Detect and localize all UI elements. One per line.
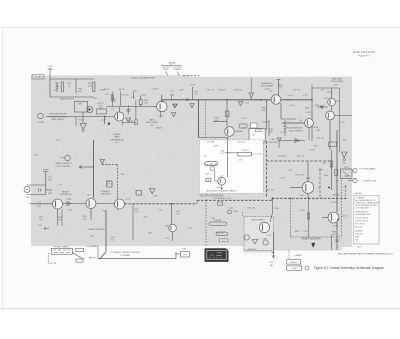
transistor Q6 bar [306,120,308,125]
svg-text:+15V: +15V [152,195,158,197]
pot R46 rounded box [205,162,218,166]
node dots rail B [226,99,228,101]
svg-text:Q2: Q2 [151,125,155,127]
svg-text:R44 BLANKING: R44 BLANKING [287,127,303,130]
diode CR6 [295,139,300,143]
diode circle CR7 [263,240,268,245]
white integrator box [199,140,263,194]
svg-text:C39: C39 [238,160,243,162]
svg-text:+4.7V: +4.7V [266,235,272,237]
svg-text:S1 SWEEP: S1 SWEEP [86,246,98,248]
ground [252,240,258,244]
component notch [226,248,229,251]
transistor Q9 bar [55,201,57,207]
wire bias network bottom rail [50,96,94,98]
wire jog [198,137,227,139]
svg-text:+15V: +15V [299,210,305,212]
svg-text:C46: C46 [288,170,293,172]
transistor Q8 bar [219,179,221,184]
connector J1 [24,187,30,193]
wire sweep length [98,252,176,258]
svg-text:FOLLOWER: FOLLOWER [261,85,274,87]
svg-text:1K: 1K [56,86,59,88]
output terminal E2 [353,178,357,182]
svg-text:+15V: +15V [190,85,196,87]
transistor Q12 [169,224,177,232]
power -15V arrow down [272,255,275,258]
svg-text:15K: 15K [262,110,266,112]
svg-text:C13: C13 [169,91,174,93]
svg-text:INDICATES WIRING PATH OF SWEEP: INDICATES WIRING PATH OF SWEEP GENERATOR… [338,253,394,256]
svg-text:C24: C24 [126,110,131,112]
transistor Q11 bar [117,201,119,207]
transistor Q1 bar [117,114,119,120]
E3 label box [220,239,228,242]
svg-text:4.7K: 4.7K [131,97,136,99]
svg-text:DRIVER Q8: DRIVER Q8 [60,194,73,196]
svg-text:SWEEP LENGTH: SWEEP LENGTH [87,229,105,231]
svg-text:R46 SWP CAL: R46 SWP CAL [204,163,218,166]
resistor box R20 [97,109,107,114]
svg-text:+8.9V: +8.9V [305,178,311,180]
svg-text:C38 10: C38 10 [241,150,249,152]
terminal E ring [228,210,232,214]
capacitor C40 [225,152,231,154]
svg-text:.01: .01 [194,94,198,96]
svg-text:10K: 10K [135,211,139,213]
wire Q2 collector [161,95,163,103]
svg-text:DISCONNECT: DISCONNECT [251,219,266,221]
svg-text:+15V: +15V [47,66,53,68]
svg-text:R51: R51 [343,140,348,142]
transistor Q7 [302,182,314,194]
svg-text:+15V: +15V [262,143,268,145]
dashed disconnect enclosure [244,217,274,251]
svg-text:1K: 1K [207,180,210,182]
svg-text:C28: C28 [245,103,250,105]
wafer marks [54,250,71,253]
wire Q13 emitter down [272,232,274,258]
box R25 [136,191,142,196]
svg-text:C47: C47 [342,162,347,164]
wire long vertical left [93,140,95,198]
wire reset row [30,203,53,205]
node circle [343,158,345,160]
dashed vertical right [345,185,347,199]
svg-text:+9.4V: +9.4V [305,112,311,114]
wire rail B main [162,99,312,101]
wire [250,98,252,100]
filler labels [35,90,348,235]
transistor Q5B [326,111,335,120]
svg-text:.022: .022 [37,205,42,207]
svg-text:Q4: Q4 [269,91,273,93]
svg-text:TP1: TP1 [183,255,188,257]
svg-text:+GATE: +GATE [294,254,302,257]
component inner marks [210,253,223,258]
capacitor C21 plate [43,170,49,172]
svg-text:R57: R57 [148,233,153,235]
resistor R17 [61,82,63,92]
wire [312,87,340,89]
wire [123,122,136,124]
resistor R30 [225,111,229,117]
diode CR5 [277,138,281,142]
wire +15V Q5 [331,89,333,99]
adjust circle R19a [38,113,44,119]
dashed vertical col [341,180,343,237]
wire [45,171,47,194]
thermistor marks [343,171,351,177]
svg-text:Figure 8-7: Figure 8-7 [358,54,370,58]
svg-text:-15V: -15V [165,238,170,240]
TP2 box [218,202,223,205]
svg-text:DISCONNECT: DISCONNECT [289,130,304,132]
svg-text:DESIGNATIONS: DESIGNATIONS [355,213,371,216]
wire [104,117,106,125]
wire [75,79,77,84]
svg-text:Q7: Q7 [318,187,322,189]
wire Q7 base [290,187,302,189]
svg-text:1K: 1K [279,87,282,89]
output terminal E1 [353,169,357,173]
wire [336,223,338,251]
svg-text:DELAY LINE AMPLIFIER: DELAY LINE AMPLIFIER [131,77,156,80]
svg-text:100-250: 100-250 [355,233,363,235]
wire gate pulse [79,166,94,168]
ref box A [287,260,301,264]
svg-text:+15V: +15V [119,174,125,176]
svg-text:15K: 15K [112,101,116,103]
transistor Q12 bar [170,226,172,231]
node blob [108,123,110,125]
svg-text:+8.6V: +8.6V [313,127,319,129]
svg-text:RT1 TP1-2: RT1 TP1-2 [355,223,366,225]
wire Q3 feed [226,100,228,127]
adjust circle [210,166,214,170]
ground [126,118,131,122]
wire dashed vertical [117,165,119,211]
schematic shaded area [31,75,352,253]
connector triangle [100,160,105,164]
svg-text:RT1: RT1 [344,167,349,169]
wire holdoff feed [308,198,310,237]
svg-text:TO HORIZ AMPL: TO HORIZ AMPL [359,167,377,170]
wire [331,106,333,111]
svg-text:.01: .01 [67,86,71,88]
svg-text:180: 180 [48,179,52,181]
transistor Q9 [53,199,63,209]
wire Q1 emitter [121,121,124,126]
connector triangle [249,93,254,98]
switch wafer box [51,248,72,254]
svg-text:EXT: EXT [27,197,32,199]
diode CR8 solid [312,243,316,248]
svg-text:R30: R30 [102,211,107,213]
resistor R18 [75,84,77,94]
wire right column top [311,85,313,141]
switch box S1 [76,259,83,262]
contact box [256,129,262,132]
varistor circle [244,235,249,240]
wire [96,203,114,205]
svg-text:C31: C31 [286,100,291,102]
svg-text:E1-3 S1: E1-3 S1 [355,226,363,228]
svg-text:+8.1V: +8.1V [299,195,305,197]
transistor Q4 bar [273,97,275,103]
svg-text:+1.2V: +1.2V [125,199,131,201]
svg-text:C26: C26 [68,210,73,212]
node junction [273,252,275,254]
svg-text:+0.8V: +0.8V [101,120,107,122]
transistor Q13 [259,222,269,232]
wire right column long [336,130,338,212]
paper speckle [35,77,350,245]
wire connector feed [250,78,252,93]
wire dashed drop [205,100,207,138]
svg-text:R24: R24 [48,193,53,195]
boundary tag dashes [183,75,200,77]
delay line bracket [209,222,227,226]
svg-text:CR7: CR7 [262,239,267,241]
svg-text:C9 .1: C9 .1 [106,94,112,96]
transistor Q5B bar [327,113,329,118]
svg-text:RESET: RESET [62,191,70,193]
transistor Q5A bar [329,100,331,105]
svg-text:CRT CIRCUIT: CRT CIRCUIT [57,166,72,168]
svg-text:R23: R23 [78,120,83,122]
svg-text:+2.4V: +2.4V [339,122,345,124]
transistor Q10 [86,199,96,209]
wire in-box vertical [227,140,229,177]
relay box K1 [251,123,258,128]
svg-text:+0.6V: +0.6V [302,95,308,97]
resistor R31 [139,100,142,105]
svg-text:-15V: -15V [38,225,43,227]
svg-text:+1.2V: +1.2V [279,178,285,180]
transistor Q10 bar [88,200,90,206]
wire emitter out [335,115,353,117]
svg-text:XA5: XA5 [355,235,360,238]
dashed vertical [242,212,244,216]
diode CR4 [320,106,324,109]
resistor R45 [330,161,333,167]
power bracket [161,63,182,65]
svg-text:Q5: Q5 [334,84,338,86]
svg-text:+ GATE TO A4: + GATE TO A4 [362,179,377,182]
resistor R23 [75,117,77,127]
svg-text:+0.7V: +0.7V [264,89,270,91]
ground [80,124,87,132]
wire [281,118,296,120]
wire blanking column [268,120,270,136]
svg-text:+10V: +10V [335,100,341,102]
ground [171,113,176,117]
svg-text:C33: C33 [320,90,325,92]
svg-text:C37: C37 [188,228,193,230]
wire [266,100,268,130]
svg-text:+15V: +15V [179,90,185,92]
svg-text:R43: R43 [313,145,318,147]
svg-text:R26: R26 [142,95,147,97]
svg-text:AMPLIFIER: AMPLIFIER [146,121,158,124]
svg-text:15K: 15K [58,219,62,221]
svg-text:C20: C20 [53,90,58,92]
svg-text:A5Q2: A5Q2 [156,127,162,130]
svg-text:+10.7V: +10.7V [287,95,295,97]
svg-text:R50: R50 [233,211,238,213]
svg-text:P/O A5: P/O A5 [37,121,45,124]
svg-text:CR2: CR2 [78,104,83,106]
transistor Q14 [328,212,339,223]
svg-text:FRONT PANEL: FRONT PANEL [54,245,70,248]
wire [317,106,328,108]
svg-text:R44: R44 [214,146,219,148]
wire sweep bus dashed seg3 [272,197,348,199]
svg-text:Figure 8-7. Sweep Generator S: Figure 8-7. Sweep Generator Schematic Di… [314,266,384,270]
capacitor C20 [56,82,59,92]
svg-text:+0.2V: +0.2V [280,132,286,134]
wire +15V to Q4 [278,79,280,95]
svg-text:A5 MILLER INTEGRATOR ASSY: A5 MILLER INTEGRATOR ASSY [207,189,237,192]
svg-text:K1: K1 [253,135,256,137]
svg-text:C35 .02: C35 .02 [316,138,324,140]
capacitor C38 box [238,152,252,156]
svg-text:Q10: Q10 [342,215,347,217]
diode CR2 [87,107,93,113]
wire dashed corner [102,164,118,166]
ground [173,104,177,108]
svg-text:+6V: +6V [335,180,339,182]
svg-text:CR5: CR5 [270,139,275,141]
wire +15V drop [192,87,194,100]
svg-text:TRIGGER FROM: TRIGGER FROM [49,114,66,116]
svg-text:C44: C44 [322,163,327,165]
ground [173,104,177,108]
resistor R47 box [206,178,211,181]
dashed holdoff enclosure left [266,141,268,198]
black component inner frame [207,251,226,260]
dashed bracket [47,253,49,264]
dashed vertical bottom [288,250,290,260]
svg-text:+3.9V: +3.9V [333,226,339,228]
power +15V pair right arrow [178,72,180,76]
wire [278,142,280,149]
svg-text:(B): (B) [35,155,38,157]
svg-text:R34: R34 [170,95,175,97]
svg-text:BLANKING: BLANKING [261,82,272,85]
svg-text:R51 2K: R51 2K [267,190,275,192]
connector center pin [26,189,27,190]
wire rail A [106,106,157,108]
svg-text:R24 1K: R24 1K [122,95,130,97]
svg-text:GATE PULSE TO: GATE PULSE TO [55,162,72,165]
svg-text:W1: W1 [355,239,359,241]
box R25 upper [107,181,113,187]
wire [227,138,229,154]
svg-text:+0.17V: +0.17V [330,202,338,204]
node dots bus [171,203,173,205]
resistor R22 vertical [112,92,114,107]
notes box text [355,193,380,242]
bracket 2 [216,232,228,236]
svg-text:BIAS ADJUST: BIAS ADJUST [60,98,75,101]
wire [339,88,341,152]
svg-text:Q1: Q1 [111,109,115,111]
svg-text:-15V: -15V [216,187,221,189]
svg-text:10K: 10K [107,183,111,185]
svg-text:C29: C29 [90,236,95,238]
diode CR2 arrow [89,108,92,111]
TP1 box [181,252,190,258]
wire [352,170,353,172]
resistor R49 [307,213,309,219]
svg-text:A5 ASSY: A5 ASSY [248,248,258,251]
svg-text:2.7K: 2.7K [303,231,308,233]
svg-text:P/O A5: P/O A5 [35,76,43,79]
svg-text:22K: 22K [83,218,87,220]
wire sweep bus dashed seg2 [197,199,272,201]
svg-text:.01: .01 [111,239,115,241]
svg-text:DELAY: DELAY [214,219,222,222]
svg-text:8-9: 8-9 [357,246,361,248]
wire Q4 base [255,99,271,101]
svg-text:.02: .02 [220,153,224,155]
wire Q8 down arrow [221,185,224,189]
wire [270,199,273,223]
wire [135,100,137,120]
svg-text:C36 20: C36 20 [326,91,334,93]
wire TP1 arrow [175,253,180,255]
wire Q14 base stub [322,217,328,219]
svg-text:C41: C41 [203,156,208,158]
node junction [328,187,330,189]
svg-text:+10.5V: +10.5V [152,89,160,91]
svg-text:R49: R49 [319,170,324,172]
svg-text:R58 560: R58 560 [216,233,225,235]
wire [61,210,63,227]
connector triangle [150,189,156,194]
wire Q12 feed [171,204,173,225]
svg-text:UNREG: UNREG [174,69,182,71]
svg-text:+0.6V: +0.6V [158,116,164,118]
thermistor RT1 box [341,169,353,179]
svg-text:R53 4.7K: R53 4.7K [296,175,305,177]
svg-text:E3: E3 [222,240,225,242]
svg-text:CR4: CR4 [67,199,72,201]
svg-text:P/O A5: P/O A5 [208,141,216,144]
svg-text:NOTES:: NOTES: [355,193,363,195]
transistor Q2 bar [159,104,161,110]
svg-text:MILLER INTEGRATOR: MILLER INTEGRATOR [200,195,224,198]
wire +15V feed top-left [49,68,51,97]
box R44 [329,142,337,147]
svg-text:C42: C42 [229,208,234,210]
wire vertical to integrator [197,100,199,138]
svg-text:+19.7V: +19.7V [103,89,111,91]
svg-text:SWEEP: SWEEP [113,134,121,136]
svg-text:1K: 1K [40,219,43,221]
svg-text:R52 1M: R52 1M [247,208,255,210]
wire [228,152,238,154]
svg-text:TP2 SWEEP OUT: TP2 SWEEP OUT [213,198,231,200]
svg-text:100: 100 [144,103,148,105]
svg-text:R48 1K: R48 1K [333,195,341,197]
svg-text:R47 10K: R47 10K [278,156,287,158]
wire Q9 emitter [57,209,59,218]
transistor Q5A [328,98,336,106]
adjust cross [61,157,64,159]
